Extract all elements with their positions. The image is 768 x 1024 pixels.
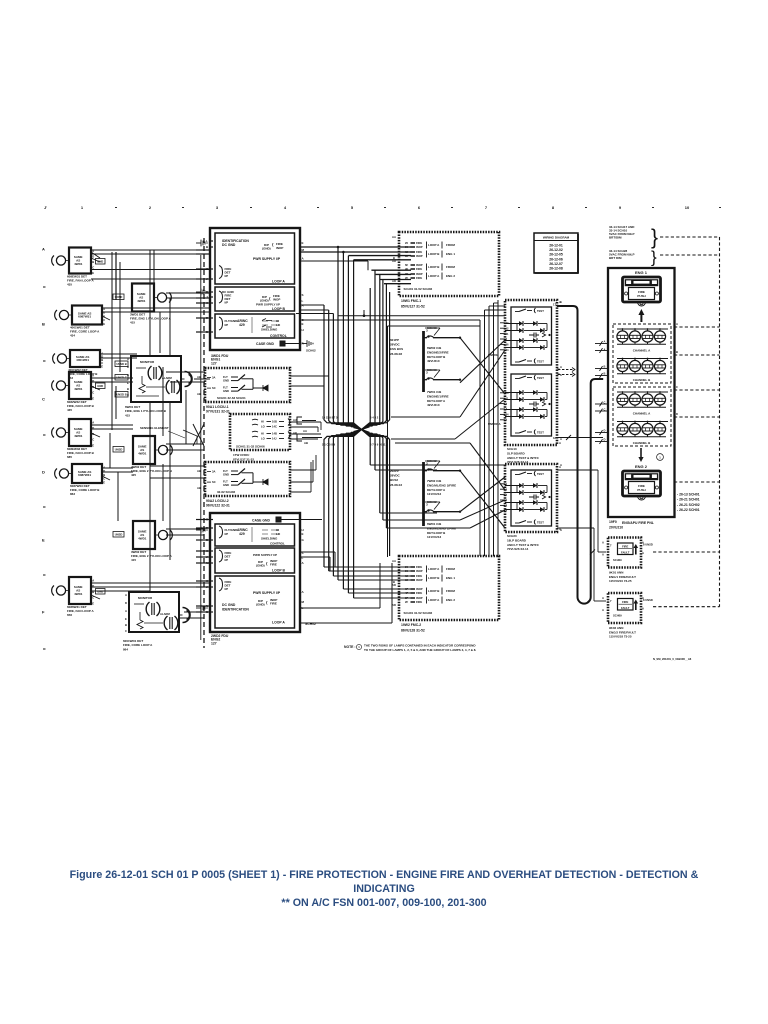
svg-text:DET/LOOP B: DET/LOOP B xyxy=(427,531,446,535)
svg-text:9: 9 xyxy=(619,205,622,210)
svg-text:429: 429 xyxy=(239,323,245,327)
svg-text:ENG/APU FIRE PNL: ENG/APU FIRE PNL xyxy=(622,521,654,525)
detector 608EW31 FIRE FAN LOOP A xyxy=(52,248,95,287)
wire group: see subcomments xyxy=(91,237,720,648)
svg-text:A: A xyxy=(302,590,305,594)
ground at FDU1 identification xyxy=(196,240,207,247)
svg-text:A: A xyxy=(92,373,94,377)
svg-text:FIRE: FIRE xyxy=(416,241,422,245)
fire push switch ENG2 xyxy=(623,471,661,496)
svg-text:A: A xyxy=(42,247,45,252)
svg-text:FROM: FROM xyxy=(446,567,455,571)
svg-text:BRT DIM: BRT DIM xyxy=(609,256,622,260)
svg-text:INOP: INOP xyxy=(416,254,423,258)
svg-text:A: A xyxy=(92,249,94,253)
svg-text:4WD1: 4WD1 xyxy=(74,387,83,391)
wire FDU1 E M to FMC1 pins 20 30 xyxy=(300,246,411,248)
ground at FDU1 case gnd SCH02 xyxy=(302,340,313,347)
svg-text:ENGINE/2/FIRE: ENGINE/2/FIRE xyxy=(427,350,449,354)
svg-text:FIRE: FIRE xyxy=(416,600,422,604)
svg-text:10B: 10B xyxy=(272,420,277,424)
svg-text:FROM: FROM xyxy=(446,243,455,247)
svg-text:ALARM: ALARM xyxy=(160,612,170,616)
svg-text:PWR SUPPLY I/P: PWR SUPPLY I/P xyxy=(253,257,281,261)
LGCIU-2 90A2 xyxy=(197,462,290,507)
svg-text:B: B xyxy=(604,365,606,369)
svg-text:L: L xyxy=(302,299,304,303)
svg-text:C: C xyxy=(92,438,94,442)
svg-text:E: E xyxy=(302,532,304,536)
svg-text:FIRE, ENG 1 PYLON LOOP A: FIRE, ENG 1 PYLON LOOP A xyxy=(130,316,172,320)
svg-text:LOOP A: LOOP A xyxy=(428,567,440,571)
svg-text:656: 656 xyxy=(67,613,72,617)
svg-text:26-12-05: 26-12-05 xyxy=(549,253,563,257)
svg-text:LOOP A: LOOP A xyxy=(428,598,440,602)
svg-text:26-12-08: 26-12-08 xyxy=(549,267,563,271)
svg-text:INOP: INOP xyxy=(416,569,423,573)
svg-text:4WD1: 4WD1 xyxy=(74,434,83,438)
svg-text:AA: AA xyxy=(293,418,297,422)
svg-text:3A: 3A xyxy=(212,469,215,473)
svg-text:6087W31: 6087W31 xyxy=(78,315,91,319)
svg-text:B: B xyxy=(676,350,678,354)
wire FDU2 left pin stubs xyxy=(196,519,210,521)
svg-text:A: A xyxy=(604,340,606,344)
svg-text:}: } xyxy=(651,226,658,249)
svg-text:H: H xyxy=(302,328,304,332)
svg-text:TEST: TEST xyxy=(537,360,544,364)
svg-text:34: 34 xyxy=(506,413,509,417)
fire push switch ENG1 xyxy=(623,277,661,302)
wire dashed rail vertical xyxy=(719,237,721,607)
ground at FDU2 loop A xyxy=(196,605,207,612)
svg-text:TEST: TEST xyxy=(537,376,544,380)
wire 387 rail xyxy=(387,326,389,557)
wire FDU1 left pin stubs xyxy=(196,249,210,251)
svg-text:18: 18 xyxy=(553,436,556,440)
svg-text:33: 33 xyxy=(506,321,509,325)
svg-text:E: E xyxy=(101,364,103,368)
svg-text:A: A xyxy=(559,441,561,445)
svg-text:A: A xyxy=(602,608,604,612)
svg-text:E: E xyxy=(125,617,127,621)
svg-text:4WD1: 4WD1 xyxy=(138,451,147,455)
wire left rail x150 xyxy=(149,250,151,356)
node row letters xyxy=(42,247,46,650)
svg-text:821PP: 821PP xyxy=(390,338,399,342)
svg-text:864: 864 xyxy=(123,647,128,651)
svg-text:UNSD09A: UNSD09A xyxy=(488,422,501,426)
svg-text:ENG 1: ENG 1 xyxy=(635,270,648,275)
svg-text:UNSD B: UNSD B xyxy=(116,393,126,397)
svg-text:GND: GND xyxy=(97,384,103,388)
svg-text:121VU212: 121VU212 xyxy=(427,492,442,496)
svg-text:21: 21 xyxy=(506,396,509,400)
svg-text:D: D xyxy=(676,412,678,416)
svg-text:26-12-01: 26-12-01 xyxy=(549,244,563,248)
wire bundle group2 lower xyxy=(362,430,371,466)
svg-text:ENG 1: ENG 1 xyxy=(446,252,455,256)
svg-text:DET/LOOP A: DET/LOOP A xyxy=(427,488,446,492)
svg-text:435: 435 xyxy=(67,282,72,286)
svg-text:B: B xyxy=(127,387,129,391)
detector 4001W02 FIRE CORE LOOP B xyxy=(53,350,104,380)
svg-text:A: A xyxy=(602,596,604,600)
svg-text:S: S xyxy=(302,293,304,297)
detector 6082W22 FIRE FAN LOOP B xyxy=(52,372,95,412)
svg-text:I/P: I/P xyxy=(225,532,229,536)
svg-text:LOOP B: LOOP B xyxy=(428,576,440,580)
svg-text:FIRE: FIRE xyxy=(270,602,277,606)
svg-text:(GND): (GND) xyxy=(256,564,265,568)
svg-text:ANN LT TEST & INTFC: ANN LT TEST & INTFC xyxy=(507,456,540,460)
svg-text:115VU210 73-25: 115VU210 73-25 xyxy=(609,579,632,583)
svg-text:26-12-02: 26-12-02 xyxy=(549,248,563,252)
detector 3WD1 ENG1 PYLON LOOP A xyxy=(130,284,172,325)
svg-text:SHIELDING: SHIELDING xyxy=(261,328,278,332)
svg-text:28VDC: 28VDC xyxy=(390,343,401,347)
detector 4001W01 FIRE CORE LOOP A xyxy=(55,306,106,338)
svg-text:ENGINE/1/FIRE: ENGINE/1/FIRE xyxy=(427,394,449,398)
monitor 6WD1 DET xyxy=(125,356,192,417)
svg-text:SCH03: SCH03 xyxy=(427,368,437,372)
svg-text:D: D xyxy=(604,429,606,433)
FDU 3WD1 loop B section xyxy=(215,287,295,311)
svg-text:2: 2 xyxy=(149,205,152,210)
svg-text:{: { xyxy=(269,296,271,301)
svg-text:E: E xyxy=(92,601,94,605)
svg-text:LOOP A: LOOP A xyxy=(428,274,440,278)
FDU 3WD1 loop A section xyxy=(215,233,295,284)
svg-text:FIRE: FIRE xyxy=(416,574,422,578)
svg-text:32: 32 xyxy=(506,326,509,330)
svg-text:19W1 FMC-1: 19W1 FMC-1 xyxy=(401,299,421,303)
wire bowtie exits to X area xyxy=(437,416,460,418)
wire FDU left bus with terminal dashes xyxy=(203,238,205,648)
svg-text:70VU126 X3-14: 70VU126 X3-14 xyxy=(507,460,529,464)
svg-text:8 UNSD: 8 UNSD xyxy=(643,543,653,547)
svg-text:M: M xyxy=(302,600,305,604)
svg-text:AA: AA xyxy=(392,235,396,239)
svg-text:CHANNEL B: CHANNEL B xyxy=(633,378,651,382)
svg-text:C: C xyxy=(676,385,678,389)
detector 4WD2 ENG2 PYLON LOOP B xyxy=(131,436,173,477)
svg-text:B: B xyxy=(125,623,127,627)
svg-text:TEST: TEST xyxy=(537,309,544,313)
svg-text:B: B xyxy=(42,322,45,327)
svg-text:10 11 9 8 7 5: 10 11 9 8 7 5 xyxy=(322,416,338,420)
channel block 2 xyxy=(613,387,671,446)
svg-text:D: D xyxy=(92,254,94,258)
svg-text:LOOP B: LOOP B xyxy=(272,307,285,311)
svg-text:B: B xyxy=(92,260,94,264)
svg-text:A: A xyxy=(560,373,562,377)
FMC-1 19W1 xyxy=(392,232,499,309)
LGCIU-1 90A1 xyxy=(197,368,290,413)
svg-text:LOOP B: LOOP B xyxy=(272,569,285,573)
svg-text:B: B xyxy=(103,473,105,477)
svg-text:- 26-13 SCH01: - 26-13 SCH01 xyxy=(677,493,700,497)
arrow to ENG2 xyxy=(638,448,643,462)
wire breaker X diagonals xyxy=(460,338,505,394)
svg-text:C: C xyxy=(92,265,94,269)
svg-text:20VU210: 20VU210 xyxy=(609,526,623,530)
svg-text:FROM: FROM xyxy=(446,589,455,593)
svg-text:INOP: INOP xyxy=(416,272,423,276)
svg-text:10: 10 xyxy=(685,205,690,210)
svg-text:4: 4 xyxy=(506,504,508,508)
wire detector chain verticals xyxy=(111,258,113,305)
svg-text:3: 3 xyxy=(506,487,508,491)
svg-text:7: 7 xyxy=(610,544,612,548)
sensing element callout xyxy=(140,426,185,438)
svg-text:A: A xyxy=(127,373,129,377)
note 5VAC BRT/DIM feeds xyxy=(609,225,658,267)
svg-text:A: A xyxy=(103,307,105,311)
svg-text:7: 7 xyxy=(610,599,612,603)
svg-text:A: A xyxy=(560,528,562,532)
svg-text:434: 434 xyxy=(70,333,75,337)
svg-text:14C: 14C xyxy=(272,425,277,429)
svg-text:SCH01 31-52 SCH02: SCH01 31-52 SCH02 xyxy=(404,287,433,291)
svg-text:20: 20 xyxy=(405,241,408,245)
wire FMC1 pins 62 92 xyxy=(348,255,411,257)
svg-text:E: E xyxy=(92,443,94,447)
svg-text:CASE GND: CASE GND xyxy=(252,519,270,523)
SLP board SCH10 xyxy=(488,300,561,464)
svg-text:5: 5 xyxy=(506,498,508,502)
svg-text:FLT: FLT xyxy=(223,375,228,379)
svg-text:19F0: 19F0 xyxy=(609,520,617,524)
svg-text:INOP: INOP xyxy=(416,245,423,249)
svg-text:FIRE: FIRE xyxy=(416,565,422,569)
svg-text:N_SM_261201_0_01B006__A6: N_SM_261201_0_01B006__A6 xyxy=(653,657,692,661)
svg-text:E: E xyxy=(92,271,94,275)
note circle 1 xyxy=(657,454,664,461)
svg-text:LOOP A: LOOP A xyxy=(272,621,285,625)
svg-text:85VU127 31-52: 85VU127 31-52 xyxy=(401,305,425,309)
svg-text:6F: 6F xyxy=(405,263,408,267)
wire mid verticals top bends xyxy=(485,309,506,311)
svg-text:4: 4 xyxy=(284,205,287,210)
svg-text:MONITOR: MONITOR xyxy=(138,596,153,600)
svg-text:A: A xyxy=(92,420,94,424)
wire FMC1 pins 6F 4F 3F 2F xyxy=(371,269,411,271)
svg-text:B: B xyxy=(604,372,606,376)
svg-text:E: E xyxy=(302,241,304,245)
svg-text:FIRE: FIRE xyxy=(638,484,645,488)
svg-text:435: 435 xyxy=(67,408,72,412)
svg-text:A: A xyxy=(125,593,127,597)
svg-text:127: 127 xyxy=(211,361,217,365)
svg-text:3A: 3A xyxy=(212,375,215,379)
svg-text:LOOP B: LOOP B xyxy=(428,265,440,269)
svg-text:I/P: I/P xyxy=(225,301,229,305)
svg-text:PUSH: PUSH xyxy=(637,488,645,492)
wire left bus solid companion xyxy=(200,255,202,640)
svg-text:DC GND: DC GND xyxy=(222,603,236,607)
svg-text:32-62 SCH02: 32-62 SCH02 xyxy=(217,490,236,494)
ground at FDU2 arinc xyxy=(196,527,207,534)
svg-text:26-12-06: 26-12-06 xyxy=(549,257,563,261)
wire detectors to FDU2 xyxy=(91,582,210,584)
svg-text:A: A xyxy=(302,561,305,565)
svg-text:I/P: I/P xyxy=(225,558,229,562)
detector 6087W03 FIRE CORE LOOP B xyxy=(55,464,106,496)
svg-text:AB: AB xyxy=(197,392,201,396)
wire group2 lower bends xyxy=(370,464,505,466)
wire LGCIU CFDIU connectors xyxy=(170,371,205,373)
wire bundle group2 verticals upper xyxy=(362,288,371,430)
svg-text:1: 1 xyxy=(659,455,661,459)
wire left rail x112 xyxy=(111,252,113,430)
gnd tag U4 xyxy=(96,383,106,389)
svg-text:F: F xyxy=(42,610,45,615)
svg-text:SCH09: SCH09 xyxy=(613,614,622,618)
svg-text:MONITOR: MONITOR xyxy=(140,360,155,364)
svg-text:SLP BOARD: SLP BOARD xyxy=(507,451,525,455)
svg-text:4: 4 xyxy=(506,402,508,406)
svg-text:{: { xyxy=(266,600,268,605)
note text xyxy=(344,644,476,652)
svg-text:34: 34 xyxy=(506,348,509,352)
svg-text:6 7 8 9 10 11: 6 7 8 9 10 11 xyxy=(370,443,386,447)
svg-text:GND: GND xyxy=(97,260,103,264)
svg-text:425: 425 xyxy=(131,473,136,477)
svg-text:14B: 14B xyxy=(272,432,277,436)
svg-text:A: A xyxy=(602,553,604,557)
svg-text:D: D xyxy=(42,470,45,475)
wiring diagram reference box xyxy=(534,233,579,274)
svg-text:31: 31 xyxy=(506,332,509,336)
svg-text:685: 685 xyxy=(67,455,72,459)
arrow to lamps xyxy=(638,309,644,322)
svg-text:26-12-07: 26-12-07 xyxy=(549,262,563,266)
svg-text:7WD1 C/B: 7WD1 C/B xyxy=(427,390,442,394)
svg-text:A: A xyxy=(560,300,562,304)
svg-text:6 4 3 2 1: 6 4 3 2 1 xyxy=(370,416,381,420)
svg-text:UNSD: UNSD xyxy=(115,533,123,537)
wire ENG panel terminals xyxy=(595,343,608,345)
svg-text:INOP: INOP xyxy=(416,596,423,600)
gnd tag U1 xyxy=(96,259,106,265)
unsd tag V3 xyxy=(113,532,124,538)
wire AA AB stubs left of bowtie xyxy=(297,417,302,441)
svg-text:D: D xyxy=(127,365,129,369)
svg-text:I/P: I/P xyxy=(225,587,229,591)
svg-text:FLT: FLT xyxy=(223,469,228,473)
svg-text:26-68-03: 26-68-03 xyxy=(390,483,402,487)
wire long horizontal y313 to SLP xyxy=(296,313,333,315)
svg-text:SCH02: SCH02 xyxy=(306,349,316,353)
svg-text:WIRING DIAGRAM: WIRING DIAGRAM xyxy=(543,235,570,239)
svg-text:LO: LO xyxy=(261,437,265,441)
svg-text:AB: AB xyxy=(197,486,201,490)
wire bundle group1 verticals + cross to lower right xyxy=(324,305,362,430)
svg-text:AD: AD xyxy=(392,583,396,587)
svg-text:E: E xyxy=(103,480,105,484)
wire hairpin loop xyxy=(557,306,603,604)
svg-text:1TW CFDIU: 1TW CFDIU xyxy=(233,453,249,457)
svg-text:TO THE GROUP OF LAMPS 1, 2, 5: TO THE GROUP OF LAMPS 1, 2, 5 & 6, AND T… xyxy=(364,648,476,652)
svg-text:863: 863 xyxy=(70,492,75,496)
svg-text:A: A xyxy=(642,551,644,555)
detector 6086W31 FIRE FAN LOOP A xyxy=(52,577,95,617)
svg-text:A: A xyxy=(302,257,305,261)
svg-text:PWR SUPPLY I/P: PWR SUPPLY I/P xyxy=(253,591,281,595)
channel block 1 xyxy=(613,324,671,383)
svg-text:IDENTIFICATION: IDENTIFICATION xyxy=(222,608,249,612)
svg-text:D: D xyxy=(103,311,105,315)
ess bus 821PP xyxy=(390,326,461,407)
svg-text:28VDC: 28VDC xyxy=(390,474,401,478)
svg-text:C: C xyxy=(42,397,45,402)
wire pin fan marks U1 xyxy=(91,252,100,258)
svg-text:ENG 2: ENG 2 xyxy=(446,274,455,278)
svg-text:GND: GND xyxy=(223,389,229,393)
svg-text:SCH01 32-63 SCH01: SCH01 32-63 SCH01 xyxy=(217,396,246,400)
svg-text:A: A xyxy=(125,609,127,613)
svg-text:FIRE: FIRE xyxy=(270,563,277,567)
svg-text:LOOP A: LOOP A xyxy=(272,280,285,284)
ground at FDU1 loop B xyxy=(196,289,207,296)
monitor 6001WD1 DET xyxy=(123,592,190,651)
svg-text:GND: GND xyxy=(223,379,229,383)
svg-text:FIRE: FIRE xyxy=(416,276,422,280)
svg-text:LOOP A: LOOP A xyxy=(428,243,440,247)
wire detectors mid connects xyxy=(91,424,133,426)
svg-text:2 1 C 5 8 9: 2 1 C 5 8 9 xyxy=(322,443,336,447)
svg-text:97VU131 32-31: 97VU131 32-31 xyxy=(206,409,230,413)
wire FMC2 pin horizontals xyxy=(324,566,411,568)
FDU 2WD2 loop A section xyxy=(215,576,295,628)
svg-text:115VU218 73-25: 115VU218 73-25 xyxy=(609,635,632,639)
svg-text:429: 429 xyxy=(239,532,245,536)
svg-text:FIRE, ENG 2 PYLON LOOP B: FIRE, ENG 2 PYLON LOOP B xyxy=(131,469,173,473)
svg-text:ENG 2: ENG 2 xyxy=(446,598,455,602)
svg-text:ENG/ML/ENG 2/FIRE: ENG/ML/ENG 2/FIRE xyxy=(427,483,456,487)
svg-text:96VU122 32-31: 96VU122 32-31 xyxy=(206,503,230,507)
svg-text:8 UNSD: 8 UNSD xyxy=(643,598,653,602)
svg-text:NOTE :: NOTE : xyxy=(344,645,356,649)
svg-text:BUS2: BUS2 xyxy=(390,478,398,482)
svg-text:1: 1 xyxy=(81,205,84,210)
svg-text:SCH03: SCH03 xyxy=(427,326,437,330)
svg-text:PWR SUPPLY I/P: PWR SUPPLY I/P xyxy=(253,553,277,557)
svg-text:CASE GND: CASE GND xyxy=(256,342,274,346)
wire SLP to ann boxes xyxy=(557,437,603,439)
svg-text:8: 8 xyxy=(552,205,555,210)
svg-text:INOP: INOP xyxy=(416,578,423,582)
svg-text:B: B xyxy=(206,245,209,249)
svg-text:86VU128 31-52: 86VU128 31-52 xyxy=(401,629,425,633)
svg-text:A: A xyxy=(560,437,562,441)
svg-text:121VU213: 121VU213 xyxy=(427,535,442,539)
svg-text:FIRE: FIRE xyxy=(638,290,645,294)
svg-text:14J: 14J xyxy=(272,437,277,441)
svg-text:AB: AB xyxy=(197,469,201,473)
svg-text:415: 415 xyxy=(130,320,135,324)
svg-text:PUSH: PUSH xyxy=(637,294,645,298)
svg-text:LO: LO xyxy=(261,425,265,429)
svg-text:CHANNEL A: CHANNEL A xyxy=(633,412,651,416)
svg-text:FROM: FROM xyxy=(446,265,455,269)
ENG fire panel 19F0 xyxy=(608,268,675,517)
svg-text:TEST: TEST xyxy=(537,472,544,476)
svg-text:CHANNEL A: CHANNEL A xyxy=(633,349,651,353)
svg-text:SENSING ELEMENT: SENSING ELEMENT xyxy=(140,426,169,430)
svg-text:- 26-21 SCH02: - 26-21 SCH02 xyxy=(677,503,700,507)
